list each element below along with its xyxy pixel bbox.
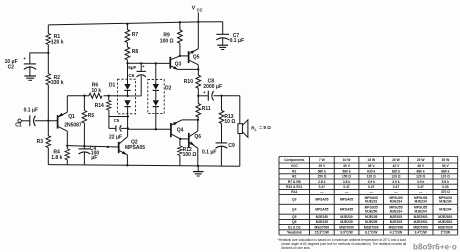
speaker RL [238, 124, 243, 134]
svg-text:R8: R8 [132, 49, 139, 55]
svg-text:5μF: 5μF [128, 65, 136, 70]
transistor Q1 [57, 115, 59, 129]
svg-text:Components: Components [284, 158, 304, 162]
svg-text:MJE2801: MJE2801 [438, 220, 452, 224]
svg-text:0.1 μF: 0.1 μF [24, 108, 38, 114]
svg-text:devices on one sink.: devices on one sink. [282, 246, 311, 250]
wire R14 bottom elbow [109, 110, 128, 117]
transistor Q2 [118, 142, 120, 153]
diode D2 (dual) [153, 84, 159, 90]
svg-text:CC: CC [197, 7, 203, 12]
svg-text:C1: C1 [15, 123, 22, 129]
svg-text:MSD7000: MSD7000 [364, 225, 379, 229]
resistor R3 [46, 136, 51, 148]
wire D1 top lead [127, 63, 129, 84]
svg-text:3.4°C/W: 3.4°C/W [414, 231, 427, 235]
wire output node line [198, 95, 208, 97]
svg-text:MJE230: MJE230 [316, 215, 328, 219]
thermal box D2 [148, 80, 164, 114]
wire R9 to Q5 base [180, 55, 188, 57]
svg-text:0.1 μF: 0.1 μF [230, 38, 244, 44]
svg-text:3.9 k: 3.9 k [368, 180, 375, 184]
svg-text:120 Ω: 120 Ω [441, 175, 450, 179]
svg-text:150 Ω: 150 Ω [342, 175, 351, 179]
svg-text:2N5087: 2N5087 [64, 123, 82, 129]
svg-text:36 V: 36 V [368, 164, 376, 168]
svg-text:MJE2901: MJE2901 [414, 220, 428, 224]
svg-text:+: + [142, 64, 145, 69]
svg-text:MSD7000: MSD7000 [339, 225, 354, 229]
svg-text:MSD7000: MSD7000 [389, 225, 404, 229]
svg-text:25 V: 25 V [318, 164, 326, 168]
wire C1 to Q1 base [35, 120, 57, 122]
svg-text:2°C/W: 2°C/W [441, 231, 451, 235]
svg-text:Q3: Q3 [175, 61, 182, 67]
wire Q1 emitter lead [66, 96, 68, 113]
svg-text:R1: R1 [292, 169, 296, 173]
capacitor C9 [216, 142, 228, 144]
svg-text:R10: R10 [184, 79, 193, 85]
svg-text:4.1°C/W: 4.1°C/W [390, 231, 403, 235]
resistor R5 [83, 96, 85, 111]
svg-text:0.1 μF: 0.1 μF [202, 150, 216, 156]
wire Q5 emitter to R10 [197, 65, 199, 75]
svg-text:100 Ω: 100 Ω [183, 152, 197, 158]
wire VCC lead [197, 13, 199, 22]
wire speaker drop [239, 96, 241, 124]
svg-text:620 k: 620 k [392, 169, 400, 173]
svg-text:0.47: 0.47 [343, 185, 350, 189]
component table [279, 157, 458, 236]
svg-text:MPSA05: MPSA05 [340, 198, 353, 202]
svg-text:MJE204: MJE204 [415, 209, 427, 213]
svg-text:120 Ω: 120 Ω [367, 175, 376, 179]
resistor R7 [125, 30, 130, 43]
resistor R6 [89, 93, 102, 98]
svg-text:25 W: 25 W [417, 158, 426, 162]
svg-text:R7 & R8: R7 & R8 [288, 180, 301, 184]
wire Q6 collector lead [197, 120, 199, 131]
wire R7 top lead [126, 23, 128, 25]
wire R2-base segment [47, 85, 49, 121]
svg-text:330 k: 330 k [51, 80, 64, 86]
wire R1 top lead [47, 25, 49, 34]
svg-text:MJE235: MJE235 [340, 220, 352, 224]
svg-text:2000 μF: 2000 μF [203, 84, 222, 90]
wire top supply rail [48, 22, 222, 25]
wire R3 bottom lead [47, 148, 49, 165]
svg-text:R14: R14 [291, 190, 297, 194]
wire Q5 collector to VCC [197, 22, 199, 49]
svg-text:0.33: 0.33 [442, 185, 449, 189]
svg-text:Q4: Q4 [177, 128, 184, 134]
wire Q4 emitter line [182, 119, 198, 121]
svg-text:R7: R7 [132, 32, 139, 38]
transistor Q6 [188, 133, 190, 148]
svg-text:5.6 k: 5.6 k [442, 180, 449, 184]
svg-text:Q6: Q6 [194, 134, 201, 140]
resistor R9 [179, 21, 181, 23]
svg-text:MJE105: MJE105 [390, 220, 402, 224]
svg-text:R10 & R11: R10 & R11 [286, 185, 302, 189]
svg-text:620 k: 620 k [367, 169, 375, 173]
svg-text:120 Ω: 120 Ω [416, 175, 425, 179]
svg-text:+: + [23, 56, 26, 61]
transistor Q3 [169, 57, 171, 69]
svg-text:Q6: Q6 [292, 220, 297, 224]
resistor R1 [46, 34, 51, 45]
transistor Q5 [188, 51, 190, 63]
wire base-R3 segment [47, 121, 49, 136]
svg-text:R3: R3 [37, 139, 44, 145]
svg-text:Q3: Q3 [292, 198, 297, 202]
svg-text:R5: R5 [88, 113, 95, 119]
ground below C2 [24, 75, 36, 77]
resistor R4 [66, 146, 68, 149]
svg-text:D1 & D2: D1 & D2 [288, 225, 301, 229]
svg-text:MJE234: MJE234 [439, 200, 451, 204]
svg-text:MJE105: MJE105 [365, 215, 377, 219]
wire speaker bottom lead [239, 134, 241, 167]
svg-text:9.9°C/W: 9.9°C/W [340, 231, 353, 235]
wire Q1 collector to Q2 base [67, 146, 118, 147]
svg-text:10 W: 10 W [343, 158, 352, 162]
svg-text:10 k: 10 k [91, 88, 101, 94]
svg-text:MJE234: MJE234 [415, 200, 427, 204]
svg-text:Q5: Q5 [292, 215, 297, 219]
svg-text:7 W: 7 W [319, 158, 326, 162]
wire R12 bottom lead [179, 155, 181, 165]
wire Q4 collector to Q6 base [180, 138, 188, 140]
svg-text:MJE2801: MJE2801 [438, 215, 452, 219]
wire C4 bottom lead [83, 152, 85, 165]
svg-text:V​CC: V​CC [291, 164, 299, 168]
wire bias line to Q3 base [128, 62, 171, 64]
svg-text:120 Ω: 120 Ω [391, 175, 400, 179]
wire C5 right lead [121, 127, 128, 129]
input terminal [18, 119, 21, 122]
svg-text:0.47: 0.47 [368, 185, 375, 189]
svg-text:Q1: Q1 [68, 114, 75, 120]
svg-text:C6: C6 [128, 73, 134, 78]
svg-text:MJE105: MJE105 [390, 215, 402, 219]
svg-text:Q5: Q5 [193, 54, 200, 60]
wire Q6 emitter lead [197, 148, 199, 166]
wire D2 bottom lead [155, 107, 157, 130]
wire R11 bottom lead [197, 117, 199, 120]
wire R10 bottom lead [197, 88, 199, 96]
svg-text:μF: μF [91, 155, 97, 161]
wire R9 bottom lead [179, 43, 181, 56]
wire Q1 emitter node line [67, 95, 89, 97]
svg-text:MJE234: MJE234 [390, 209, 402, 213]
wire R4 bottom lead [66, 160, 68, 165]
ground below C7 [217, 44, 228, 46]
svg-text:0.47: 0.47 [417, 185, 424, 189]
svg-text:560 k: 560 k [318, 169, 326, 173]
diode D1 (dual) [124, 84, 130, 90]
svg-text:MSD7000: MSD7000 [438, 225, 453, 229]
svg-text:6.1°C/W: 6.1°C/W [365, 231, 378, 235]
wire R5 to C4 [83, 123, 85, 149]
svg-text:MJE204: MJE204 [439, 207, 451, 211]
svg-text:R14: R14 [95, 103, 104, 109]
svg-text:MJE205: MJE205 [365, 220, 377, 224]
wire R13 to C9 [221, 124, 223, 143]
svg-text:MSD7000: MSD7000 [413, 225, 428, 229]
wire R7-R8 segment [126, 43, 128, 48]
svg-text:MPSA05: MPSA05 [315, 198, 328, 202]
svg-text:15.3°C/W: 15.3°C/W [315, 231, 330, 235]
resistor R12 [179, 139, 181, 146]
wire D1 bottom lead [127, 107, 129, 137]
svg-text:35 W: 35 W [441, 158, 450, 162]
svg-text:2.8 k: 2.8 k [318, 180, 325, 184]
svg-text:0.47: 0.47 [319, 185, 326, 189]
svg-text:20 W: 20 W [392, 158, 401, 162]
capacitor C4 [79, 148, 91, 150]
svg-text:C2: C2 [8, 65, 15, 71]
resistor R11 [197, 96, 199, 104]
svg-text:MPSA55: MPSA55 [340, 207, 353, 211]
svg-text:b8o9r6+e·o: b8o9r6+e·o [413, 243, 457, 252]
wire C6 bottom lead [140, 76, 142, 96]
wire C8 to speaker branch [214, 95, 240, 97]
wire D2 top lead [155, 62, 157, 64]
svg-text:150 Ω: 150 Ω [317, 175, 326, 179]
svg-text:L: L [255, 128, 257, 132]
svg-text:10 Ω: 10 Ω [224, 119, 235, 125]
svg-text:R11: R11 [202, 106, 211, 112]
svg-text:MPSA05: MPSA05 [125, 145, 145, 151]
wire Q1 collector lead [66, 131, 68, 145]
svg-text:3.8 k: 3.8 k [343, 180, 350, 184]
wire Q2 emitter lead [126, 155, 128, 165]
svg-text:3.9 k: 3.9 k [392, 180, 399, 184]
wire C2 branch [30, 53, 49, 64]
svg-text:MJE231: MJE231 [365, 200, 377, 204]
svg-text:+: + [203, 90, 206, 95]
svg-text:0.47: 0.47 [393, 185, 400, 189]
table footnote [278, 238, 407, 250]
svg-text:MJE230: MJE230 [340, 215, 352, 219]
resistor R10 [196, 75, 201, 88]
resistor R13 [221, 96, 223, 111]
svg-text:3.9 k: 3.9 k [417, 180, 424, 184]
svg-text:15 W: 15 W [367, 158, 376, 162]
thermal box D1 [117, 79, 135, 114]
svg-text:MPSA55: MPSA55 [315, 207, 328, 211]
svg-text:C9: C9 [228, 143, 235, 149]
svg-text:Q4: Q4 [292, 207, 297, 211]
resistor R8 [125, 47, 130, 60]
wire bottom ground rail [48, 165, 240, 167]
resistor R14 [108, 96, 110, 101]
svg-text:D2: D2 [165, 86, 172, 92]
ground symbol [197, 166, 199, 171]
svg-text:*Heatsink: *Heatsink [287, 231, 302, 235]
wire Q4 base line [128, 128, 171, 130]
svg-text:D1: D1 [109, 83, 116, 89]
svg-text:470 Ω: 470 Ω [441, 190, 450, 194]
resistor R2 [46, 74, 51, 85]
table text [284, 158, 453, 235]
svg-text:MJE2901: MJE2901 [414, 215, 428, 219]
svg-text:54 V: 54 V [442, 164, 450, 168]
wire C7 branch [222, 22, 224, 34]
svg-text:R2: R2 [292, 175, 296, 179]
svg-text:42 V: 42 V [393, 164, 401, 168]
transistor Q4 [170, 123, 172, 137]
svg-text:= 8 Ω: = 8 Ω [259, 125, 271, 130]
svg-text:MJE235: MJE235 [316, 220, 328, 224]
wire C9 bottom lead [220, 146, 222, 166]
svg-text:1.8 k: 1.8 k [51, 155, 62, 161]
svg-text:48 V: 48 V [417, 164, 425, 168]
svg-text:MJE234: MJE234 [390, 200, 402, 204]
svg-text:560 k: 560 k [342, 169, 350, 173]
svg-text:MSD7000: MSD7000 [315, 225, 330, 229]
svg-text:MJE250: MJE250 [365, 209, 377, 213]
svg-text:V: V [192, 6, 196, 12]
wire Q3 emitter line [176, 68, 178, 71]
wire R8 bottom lead [126, 60, 128, 64]
svg-text:100 Ω: 100 Ω [160, 39, 174, 45]
wire C5 loop left side [108, 117, 110, 129]
capacitor C7 [216, 33, 229, 35]
svg-text:22 μF: 22 μF [109, 134, 122, 140]
svg-text:30 V: 30 V [343, 164, 351, 168]
svg-text:120 k: 120 k [51, 40, 64, 46]
svg-text:C5: C5 [114, 118, 120, 123]
svg-text:680 k: 680 k [441, 169, 449, 173]
wire R1-R2 segment [47, 45, 49, 74]
wire R6 to R14 node [104, 95, 142, 97]
svg-text:680 k: 680 k [417, 169, 425, 173]
